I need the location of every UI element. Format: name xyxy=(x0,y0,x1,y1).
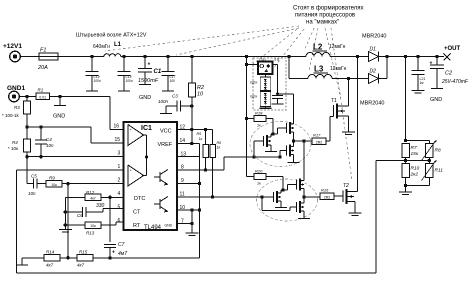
resistor R7 15k xyxy=(402,144,410,158)
module chain ground xyxy=(264,107,266,109)
wire pin 14 VREF row xyxy=(177,143,200,145)
svg-text:6: 6 xyxy=(118,218,121,224)
module diode chain boxes xyxy=(264,74,266,77)
svg-text:R11: R11 xyxy=(435,168,444,174)
svg-text:GND: GND xyxy=(139,95,151,101)
svg-text:MBR2040: MBR2040 xyxy=(360,101,384,107)
svg-text:4к7: 4к7 xyxy=(77,263,85,268)
module cap branch xyxy=(273,64,278,66)
svg-text:T1: T1 xyxy=(331,98,337,104)
svg-text:1к: 1к xyxy=(257,182,261,186)
capacitor C7 4m7 xyxy=(104,243,116,245)
wire rail to L3 xyxy=(288,57,290,79)
diode D2 MBR2040 xyxy=(369,74,379,84)
wire R9 to pin 2 xyxy=(62,183,124,185)
svg-text:C5: C5 xyxy=(31,174,37,179)
svg-text:F1: F1 xyxy=(40,48,46,54)
svg-text:6 В: 6 В xyxy=(275,58,280,62)
resistor R20 1k xyxy=(247,176,255,178)
svg-text:R13: R13 xyxy=(86,231,95,236)
svg-text:1500mF: 1500mF xyxy=(138,78,159,84)
resistor R14 4k7 xyxy=(22,257,44,259)
capacitor C18 xyxy=(123,57,125,72)
svg-text:R8: R8 xyxy=(435,148,441,154)
wire pin 11 row to lower driver xyxy=(177,196,274,198)
svg-text:C2: C2 xyxy=(445,71,452,77)
node R2/C3 xyxy=(190,104,193,107)
capacitor C5 10n xyxy=(27,183,34,185)
resistor R1 0.01 xyxy=(19,96,36,98)
module dashed box xyxy=(253,58,286,110)
wire pin11 branch to T9 gate xyxy=(261,197,263,211)
capacitor C6 330 xyxy=(64,197,66,212)
svg-text:10к: 10к xyxy=(51,183,57,187)
wire L3 to D2 xyxy=(332,78,369,80)
transistor internal Q2 xyxy=(159,199,161,209)
svg-text:MBR2040: MBR2040 xyxy=(362,34,386,40)
svg-text:КД6х: КД6х xyxy=(250,95,258,99)
svg-text:1к: 1к xyxy=(217,146,221,150)
svg-text:T2: T2 xyxy=(343,183,349,189)
svg-text:VCC: VCC xyxy=(160,129,172,135)
wire VREF feedback drop xyxy=(199,144,201,258)
capacitor C3 100n xyxy=(166,105,177,107)
wire L1 to L2 xyxy=(121,56,306,58)
svg-text:C7: C7 xyxy=(118,242,125,248)
resistor R16 2R2 xyxy=(320,193,334,200)
svg-text:R4: R4 xyxy=(12,140,18,145)
resistor R8 trimmer xyxy=(426,144,434,158)
svg-text:5: 5 xyxy=(118,205,121,211)
svg-text:1: 1 xyxy=(118,164,121,170)
transistor T4 (driver) xyxy=(263,136,265,146)
node T1 drain on L3 row xyxy=(347,77,350,80)
transistor T1 xyxy=(333,105,335,117)
svg-text:R1: R1 xyxy=(38,88,44,93)
wire fuse to L1 xyxy=(58,56,104,58)
svg-text:1к: 1к xyxy=(257,124,261,128)
capacitor C4 10n xyxy=(40,127,42,140)
svg-text:Штырьевой возле ATX+12V: Штырьевой возле ATX+12V xyxy=(76,32,147,39)
resistor R4 10k xyxy=(26,127,28,139)
node R1/GND xyxy=(58,95,61,98)
svg-text:питания процессоров: питания процессоров xyxy=(295,13,355,19)
svg-text:R2: R2 xyxy=(197,85,204,91)
ground at R1 node xyxy=(59,97,61,106)
node R4/C4 bottom on pin3 row xyxy=(25,155,28,158)
svg-text:0.01: 0.01 xyxy=(39,95,46,99)
wire down to pin 16 xyxy=(109,97,111,130)
resistor R17 2R2 xyxy=(312,138,326,145)
svg-text:* 10к: * 10к xyxy=(8,146,18,151)
svg-text:R16: R16 xyxy=(321,188,329,193)
wire node down to R14/R15 junction xyxy=(67,184,69,258)
svg-text:L3: L3 xyxy=(314,65,324,74)
wire pin 10 row xyxy=(177,209,200,211)
capacitor C2 25V-470mF xyxy=(436,57,438,65)
svg-text:640мГн: 640мГн xyxy=(93,44,110,50)
wire output to divider xyxy=(405,57,407,141)
wire amp outputs xyxy=(144,134,147,136)
wire output rail xyxy=(387,56,444,58)
fuse F1 20A xyxy=(39,53,58,60)
svg-text:4к7: 4к7 xyxy=(46,263,54,268)
svg-text:C6: C6 xyxy=(77,213,83,218)
svg-text:R3: R3 xyxy=(14,105,20,110)
svg-text:R12: R12 xyxy=(86,190,95,195)
svg-text:TL494: TL494 xyxy=(144,225,162,231)
transistor T6 (driver) xyxy=(286,146,288,156)
node lower driver output xyxy=(302,195,305,198)
terminal GND1 xyxy=(9,91,20,102)
svg-text:D2: D2 xyxy=(370,69,377,75)
ground at T1 source xyxy=(342,131,355,133)
svg-text:15: 15 xyxy=(115,137,121,143)
wire R12 to pin 4 xyxy=(101,196,124,198)
svg-text:R20: R20 xyxy=(255,169,263,174)
svg-text:R5: R5 xyxy=(197,132,202,136)
svg-text:CT: CT xyxy=(133,210,141,216)
svg-text:10: 10 xyxy=(197,92,204,98)
svg-text:1к: 1к xyxy=(199,137,203,141)
svg-text:3: 3 xyxy=(118,151,121,157)
wire pin 13 row xyxy=(177,156,200,158)
svg-text:15к: 15к xyxy=(411,151,419,157)
svg-text:12мкГн: 12мкГн xyxy=(329,44,346,50)
svg-text:R15: R15 xyxy=(79,250,88,255)
svg-text:RT: RT xyxy=(133,223,141,229)
node upper driver gate feed xyxy=(271,132,274,135)
svg-text:C1: C1 xyxy=(154,69,162,75)
svg-text:20A: 20A xyxy=(37,65,48,71)
resistor R18 1k xyxy=(245,117,248,120)
svg-text:100: 100 xyxy=(170,79,176,83)
svg-text:L1: L1 xyxy=(114,42,122,48)
wire VCC feed down to pin12 row xyxy=(191,106,193,144)
diode D1 MBR2040 xyxy=(369,52,379,62)
svg-text:10n: 10n xyxy=(28,191,36,196)
inductor L3 12uH xyxy=(308,75,332,79)
svg-text:R9: R9 xyxy=(49,176,55,181)
annotation dashed leader lines xyxy=(105,26,352,181)
svg-text:2: 2 xyxy=(118,178,121,184)
resistor R10 2k2 xyxy=(402,164,410,178)
error amplifier 2 xyxy=(128,165,144,186)
resistor R11 trimmer xyxy=(426,164,434,178)
svg-text:16: 16 xyxy=(114,124,120,130)
svg-text:VREF: VREF xyxy=(158,142,173,148)
svg-text:4м7: 4м7 xyxy=(118,251,127,257)
svg-text:R17: R17 xyxy=(313,133,321,138)
svg-text:GND1: GND1 xyxy=(7,85,25,92)
upper driver dashed ellipse xyxy=(250,122,311,167)
svg-text:Стоят в формирователях: Стоят в формирователях xyxy=(293,6,364,12)
node R12/C7 vertical xyxy=(108,196,111,199)
svg-text:КД6х: КД6х xyxy=(250,81,258,85)
resistor R2 10 xyxy=(191,57,193,84)
svg-text:2к2: 2к2 xyxy=(410,172,419,178)
node R14/R15 junction xyxy=(66,256,69,259)
capacitor C1 1500mF xyxy=(144,57,146,69)
resistor R5 1k xyxy=(205,130,207,145)
node junctions on +12V rail xyxy=(122,55,125,58)
feedback loop wire pin1 to divider xyxy=(16,170,18,273)
svg-text:C3: C3 xyxy=(172,94,178,99)
node divider bottom xyxy=(404,184,407,187)
resistor R13 10k xyxy=(64,212,66,225)
wire module cap node to driver supply xyxy=(278,93,294,95)
wire 12V drop to R20 xyxy=(246,65,248,177)
wire L2 to D1 xyxy=(330,56,369,58)
capacitor C17 xyxy=(167,57,169,72)
terminal +OUT xyxy=(444,54,451,61)
svg-text:12мкГн: 12мкГн xyxy=(330,66,347,72)
node C7 bottom xyxy=(108,256,111,259)
svg-text:L2: L2 xyxy=(313,43,323,52)
svg-text:на "мамках": на "мамках" xyxy=(306,20,339,26)
terminal +12V1 xyxy=(10,51,21,62)
resistor R6 1k xyxy=(210,145,216,158)
inductor L2 12uH xyxy=(306,53,330,57)
transistor T2 xyxy=(342,191,344,203)
svg-text:R7: R7 xyxy=(411,145,417,151)
wire rail to module xyxy=(246,57,248,65)
svg-text:+: + xyxy=(430,61,433,67)
svg-text:4к7: 4к7 xyxy=(90,197,96,201)
svg-text:GND: GND xyxy=(165,224,173,228)
transistor internal Q1 xyxy=(159,172,161,182)
node divider mid xyxy=(404,159,407,162)
node R9/C7 branch xyxy=(66,182,69,185)
svg-text:4: 4 xyxy=(118,191,121,197)
svg-text:+12V1: +12V1 xyxy=(3,43,22,50)
inductor L1 640uH xyxy=(104,54,121,57)
svg-text:GND: GND xyxy=(53,114,65,120)
svg-text:100n: 100n xyxy=(94,79,101,83)
ground at T2 source xyxy=(349,212,362,214)
wire D2 up to output rail xyxy=(379,78,388,80)
svg-text:* 100-1k: * 100-1k xyxy=(2,113,20,118)
wire R1 to pin16 drop xyxy=(50,96,111,98)
wire terminal to fuse xyxy=(20,56,39,58)
resistor R3 100-1k xyxy=(25,95,28,98)
wire pin 9 row xyxy=(177,183,200,185)
transistor T5 (driver) xyxy=(286,123,288,133)
node R3/R4/C4 xyxy=(25,125,28,128)
wire pin 1 row (feedback loop) xyxy=(17,169,124,171)
lower driver dashed ellipse xyxy=(257,179,318,221)
svg-text:D1: D1 xyxy=(370,47,377,53)
capacitor C21 xyxy=(417,57,419,71)
ground at pin 7 xyxy=(186,232,199,234)
svg-text:100n: 100n xyxy=(126,79,133,83)
ground at R14 xyxy=(21,258,23,265)
resistor R12 4k7 xyxy=(65,196,85,198)
svg-text:R18: R18 xyxy=(255,111,263,116)
svg-text:GND: GND xyxy=(430,97,442,103)
wire R4 node down to C5 xyxy=(26,157,28,184)
wire DTC net down to C7 xyxy=(109,197,111,242)
resistor R9 10k xyxy=(46,180,62,187)
transistor T8 (driver) xyxy=(296,180,298,190)
svg-text:2R2: 2R2 xyxy=(316,140,323,144)
ground at divider xyxy=(405,186,407,192)
node lower driver gate feed xyxy=(281,188,284,191)
svg-text:IC1: IC1 xyxy=(141,125,152,132)
svg-text:25V-470mF: 25V-470mF xyxy=(441,79,469,85)
wire VREF drop corner to R15 row xyxy=(199,257,201,259)
transistor T9 (driver) xyxy=(296,202,298,212)
module IC square xyxy=(258,62,273,75)
svg-text:10к: 10к xyxy=(90,224,96,228)
error amplifier 1 xyxy=(128,125,144,146)
wire R15 to VREF drop xyxy=(93,257,200,259)
svg-text:2R2: 2R2 xyxy=(324,195,331,199)
wire pin 12 VCC row to R5/R6 pullups xyxy=(177,129,206,131)
svg-text:330: 330 xyxy=(96,203,105,209)
wire pin 3 row xyxy=(27,156,124,158)
svg-text:R10: R10 xyxy=(411,166,420,172)
svg-text:10n: 10n xyxy=(46,143,54,148)
svg-text:+OUT: +OUT xyxy=(444,46,461,52)
svg-text:ТЛ4з: ТЛ4з xyxy=(259,58,267,62)
wire node to pin 15 xyxy=(27,126,91,128)
node rail junction at C19 xyxy=(90,55,93,58)
svg-text:C4: C4 xyxy=(46,137,52,142)
wire pin 7 row to ground xyxy=(177,223,192,225)
svg-text:R14: R14 xyxy=(46,250,55,255)
op-amp U1 IC1 TL494 body xyxy=(124,122,178,230)
ground at RC cluster xyxy=(64,225,66,229)
svg-text:DTC: DTC xyxy=(134,196,145,202)
capacitor C19 xyxy=(91,57,93,72)
svg-text:R6: R6 xyxy=(217,141,222,145)
wire pin 8 row to upper driver xyxy=(177,169,224,171)
svg-text:+: + xyxy=(148,62,151,68)
svg-text:+: + xyxy=(112,250,115,256)
resistor R15 4k7 xyxy=(77,255,93,261)
transistor T7 (driver) xyxy=(273,192,275,202)
node upper driver output xyxy=(292,139,295,142)
svg-text:100n: 100n xyxy=(158,99,169,104)
